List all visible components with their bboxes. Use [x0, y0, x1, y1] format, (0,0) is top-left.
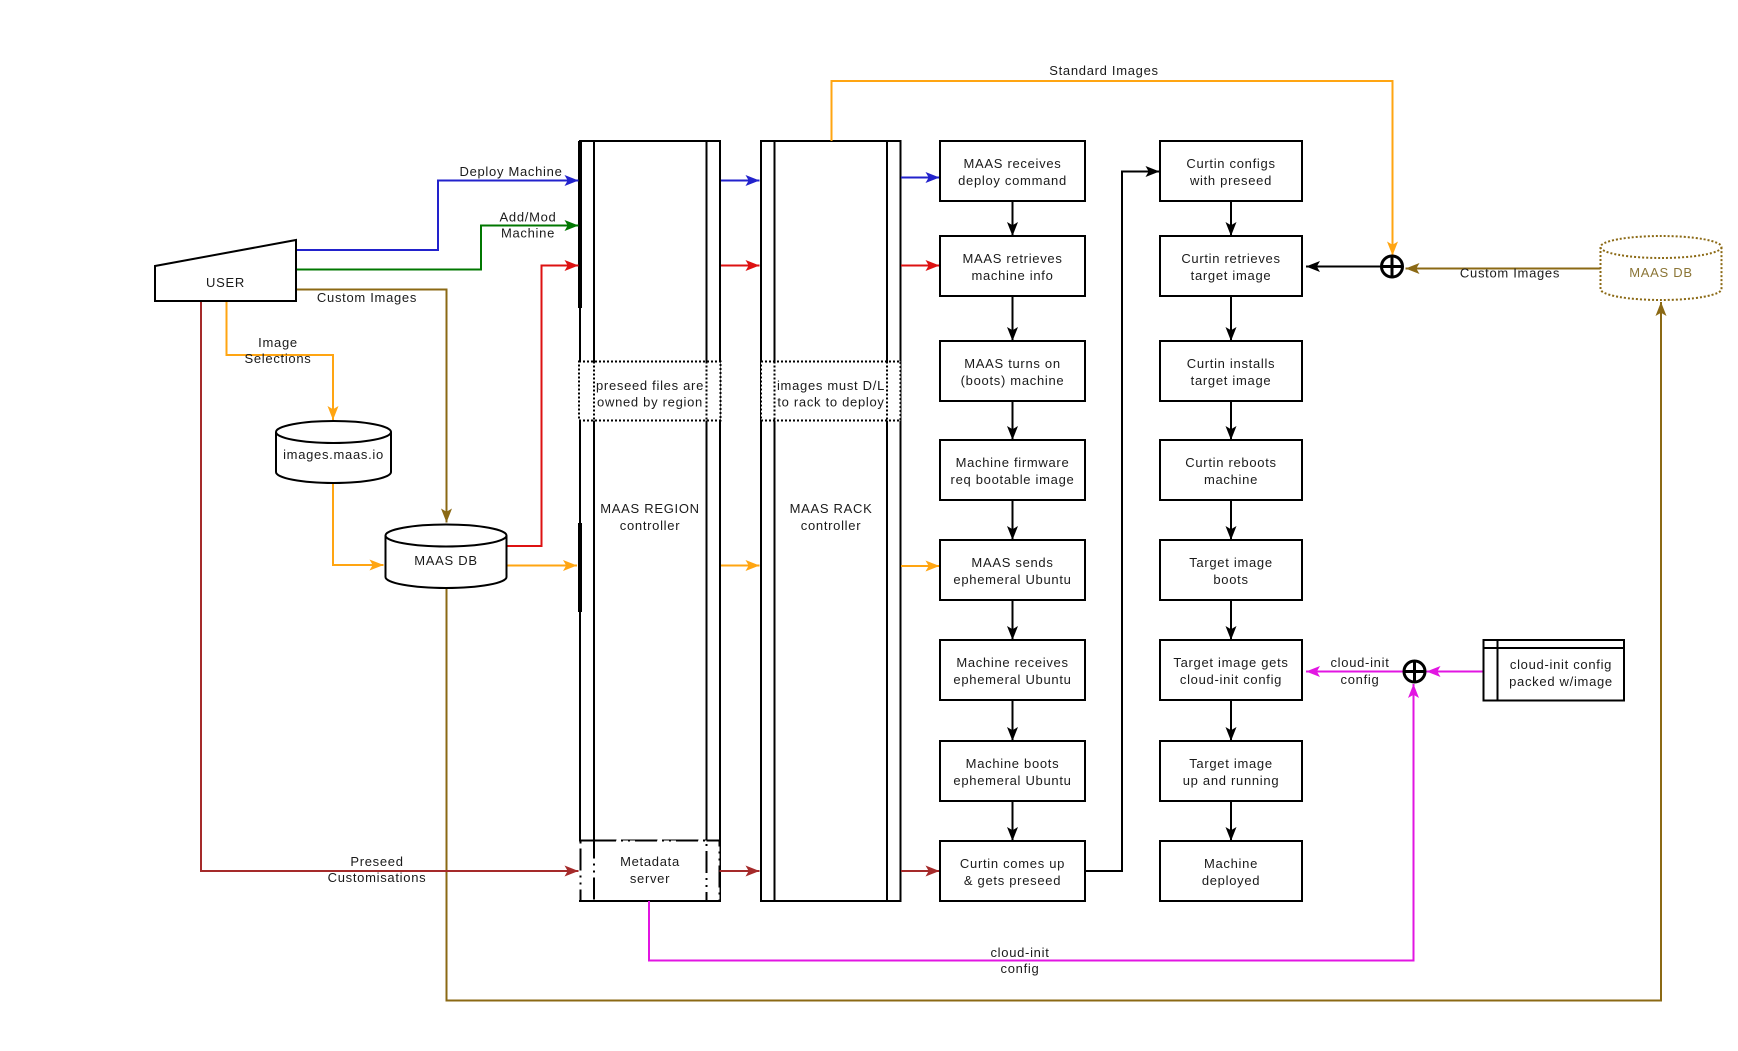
svg-text:req bootable image: req bootable image	[951, 472, 1075, 487]
svg-text:boots: boots	[1213, 572, 1248, 587]
svg-text:ephemeral Ubuntu: ephemeral Ubuntu	[953, 773, 1071, 788]
svg-text:MAAS receives: MAAS receives	[964, 156, 1062, 171]
svg-text:images must D/L: images must D/L	[777, 378, 885, 393]
svg-text:images.maas.io: images.maas.io	[283, 447, 384, 462]
svg-text:MAAS RACK: MAAS RACK	[790, 501, 873, 516]
svg-text:machine info: machine info	[971, 268, 1053, 283]
svg-text:Curtin reboots: Curtin reboots	[1185, 455, 1276, 470]
svg-text:Preseed: Preseed	[350, 854, 403, 869]
svg-text:Add/Mod: Add/Mod	[500, 210, 557, 225]
svg-text:Target image gets: Target image gets	[1173, 655, 1288, 670]
svg-text:config: config	[1001, 961, 1040, 976]
svg-text:MAAS REGION: MAAS REGION	[600, 501, 699, 516]
svg-text:packed w/image: packed w/image	[1509, 674, 1613, 689]
svg-text:Custom Images: Custom Images	[317, 290, 417, 305]
svg-text:target image: target image	[1191, 268, 1272, 283]
svg-text:Curtin configs: Curtin configs	[1186, 156, 1275, 171]
svg-text:Machine: Machine	[501, 226, 555, 241]
svg-text:target image: target image	[1191, 373, 1272, 388]
svg-text:Target image: Target image	[1189, 555, 1273, 570]
svg-text:Metadata: Metadata	[620, 854, 680, 869]
svg-text:MAAS retrieves: MAAS retrieves	[962, 251, 1062, 266]
svg-text:MAAS turns on: MAAS turns on	[964, 356, 1061, 371]
svg-text:Selections: Selections	[245, 351, 312, 366]
svg-text:deploy command: deploy command	[958, 173, 1067, 188]
svg-text:MAAS DB: MAAS DB	[1629, 265, 1692, 280]
svg-text:with preseed: with preseed	[1189, 173, 1272, 188]
svg-text:Machine firmware: Machine firmware	[956, 455, 1070, 470]
svg-text:server: server	[630, 871, 670, 886]
svg-text:Machine receives: Machine receives	[956, 655, 1068, 670]
svg-text:MAAS sends: MAAS sends	[971, 555, 1053, 570]
svg-text:Machine: Machine	[1204, 856, 1258, 871]
svg-text:cloud-init: cloud-init	[990, 945, 1049, 960]
svg-text:Custom Images: Custom Images	[1460, 266, 1560, 281]
svg-text:Standard Images: Standard Images	[1049, 63, 1159, 78]
svg-text:Image: Image	[258, 335, 298, 350]
svg-text:MAAS DB: MAAS DB	[414, 553, 477, 568]
svg-text:Deploy Machine: Deploy Machine	[459, 164, 562, 179]
svg-text:cloud-init config: cloud-init config	[1180, 672, 1282, 687]
svg-text:cloud-init: cloud-init	[1330, 655, 1389, 670]
svg-text:USER: USER	[206, 275, 245, 290]
svg-text:preseed files are: preseed files are	[596, 378, 704, 393]
svg-text:config: config	[1341, 672, 1380, 687]
svg-text:cloud-init config: cloud-init config	[1510, 657, 1612, 672]
svg-text:up and running: up and running	[1183, 773, 1280, 788]
svg-text:& gets preseed: & gets preseed	[964, 873, 1061, 888]
svg-text:Target image: Target image	[1189, 756, 1273, 771]
svg-text:controller: controller	[801, 518, 861, 533]
svg-text:ephemeral Ubuntu: ephemeral Ubuntu	[953, 572, 1071, 587]
svg-text:machine: machine	[1204, 472, 1258, 487]
svg-text:Customisations: Customisations	[328, 870, 427, 885]
svg-text:deployed: deployed	[1202, 873, 1260, 888]
svg-text:Curtin comes up: Curtin comes up	[960, 856, 1065, 871]
svg-text:controller: controller	[620, 518, 680, 533]
svg-text:ephemeral Ubuntu: ephemeral Ubuntu	[953, 672, 1071, 687]
svg-text:Curtin installs: Curtin installs	[1187, 356, 1276, 371]
svg-text:(boots) machine: (boots) machine	[961, 373, 1065, 388]
svg-text:to rack to deploy: to rack to deploy	[777, 395, 884, 410]
svg-text:owned by region: owned by region	[597, 395, 703, 410]
svg-text:Curtin retrieves: Curtin retrieves	[1181, 251, 1280, 266]
svg-text:Machine boots: Machine boots	[966, 756, 1060, 771]
